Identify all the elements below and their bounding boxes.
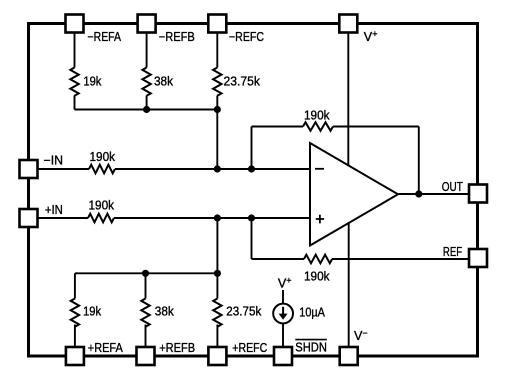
svg-text:+REFB: +REFB (159, 341, 195, 355)
svg-text:19k: 19k (83, 75, 102, 89)
resistor 190k (feedback) (303, 122, 333, 131)
wire: 19k bottom resistor top lead from bottom rail (74, 273, 76, 298)
wire: REF line right segment to REF pad (332, 258, 470, 260)
node: bottom rail / 38k junction (142, 270, 149, 277)
wire: current source to SHDN pad (282, 290, 284, 355)
svg-text:+REFA: +REFA (88, 341, 124, 355)
pad REF (469, 249, 487, 267)
pad V- (340, 347, 358, 365)
node: +IN line / bottom rail junction (214, 214, 221, 221)
svg-text:−REFB: −REFB (159, 30, 195, 44)
resistor 190k (-IN input) (89, 165, 115, 174)
current source 10uA (273, 304, 293, 324)
resistor 19k (bottom network) (71, 299, 79, 327)
resistor 38k (bottom network) (141, 299, 149, 327)
svg-text:OUT: OUT (442, 180, 463, 194)
svg-text:−IN: −IN (44, 154, 64, 168)
svg-text:19k: 19k (83, 305, 102, 319)
wire: -REFC pad stub down (216, 25, 218, 68)
node: top rail / 23.75k junction (214, 106, 221, 113)
wire: op-amp output to OUT pad (398, 193, 470, 195)
wire: feedback node up from -IN line (251, 127, 253, 170)
svg-text:190k: 190k (90, 150, 116, 164)
resistor 23.75k (bottom network) (213, 299, 221, 327)
node: top rail / 38k junction (143, 106, 150, 113)
resistor 19k (top network) (70, 68, 78, 96)
wire: -IN input line left segment (30, 168, 89, 170)
wire: +IN input line left segment (30, 217, 88, 219)
svg-text:+REFC: +REFC (232, 341, 267, 355)
wire: 23.75k bottom resistor top lead from bottom rail (216, 273, 218, 298)
wire: bottom reference rail (75, 272, 218, 274)
svg-text:190k: 190k (304, 270, 330, 284)
wire: REF line left segment (252, 258, 305, 260)
pad -REFC (208, 15, 226, 33)
pad -REFA (66, 15, 84, 33)
pad +REFB (137, 347, 155, 365)
wire: -IN input line right segment to op-amp (115, 168, 310, 170)
outer border frame wire (29, 24, 478, 357)
wire: 38k top resistor bottom lead to top rail (146, 96, 148, 110)
node: -IN line / feedback junction (248, 165, 255, 172)
pad V+ (339, 15, 357, 33)
wire: +IN input line right segment to op-amp (114, 217, 310, 219)
svg-text:23.75k: 23.75k (224, 75, 261, 89)
resistor 190k (REF) (304, 255, 332, 264)
pad OUT (469, 185, 487, 203)
wire: -REFB pad stub down (146, 25, 148, 68)
resistor 190k (+IN input) (88, 214, 114, 223)
wire: 23.75k top resistor bottom lead to top rail (216, 96, 218, 110)
svg-text:38k: 38k (154, 75, 174, 89)
wire: +IN line down to bottom rail (216, 218, 218, 273)
svg-text:190k: 190k (304, 109, 330, 123)
svg-text:38k: 38k (155, 305, 175, 319)
pad SHDN (274, 347, 292, 365)
node: +IN line / REF junction (248, 214, 255, 221)
wire: V+ supply line down to op-amp (347, 25, 349, 166)
resistor 23.75k (top network) (213, 68, 221, 96)
node: output junction (415, 190, 422, 197)
wire: top rail down to -IN wire (216, 110, 218, 170)
svg-text:−REFC: −REFC (229, 30, 264, 44)
op-amp U1 (310, 143, 398, 246)
pad -IN (20, 160, 38, 178)
wire: feedback top right segment (333, 126, 419, 128)
node: bottom rail / 23.75k junction (214, 270, 221, 277)
wire: 38k bottom resistor top lead from bottom rail (145, 273, 147, 298)
svg-text:SHDN: SHDN (295, 341, 327, 355)
svg-text:+IN: +IN (45, 203, 63, 217)
wire: 19k top resistor bottom lead to top rail (74, 96, 76, 110)
wire: top reference rail (75, 109, 218, 111)
pad -REFB (138, 15, 156, 33)
wire: +REFB pad stub up (145, 325, 147, 356)
wire: +REFA pad stub up (74, 325, 76, 356)
wire: feedback down to output node (418, 127, 420, 195)
svg-text:190k: 190k (89, 199, 115, 213)
svg-text:23.75k: 23.75k (226, 305, 262, 319)
wire: -REFA pad stub down (74, 25, 76, 68)
svg-text:10µA: 10µA (299, 306, 325, 320)
pad +REFA (66, 347, 84, 365)
wire: V- supply line up to op-amp (348, 223, 350, 356)
wire: +REFC pad stub up (216, 325, 218, 356)
pad +REFC (208, 347, 226, 365)
wire: feedback top left segment (252, 126, 304, 128)
resistor 38k (top network) (142, 68, 150, 96)
pad +IN (20, 209, 38, 227)
node: -IN line / top rail junction (214, 165, 221, 172)
svg-text:REF: REF (443, 245, 462, 259)
svg-text:−REFA: −REFA (88, 30, 122, 44)
wire: REF node down from +IN line (251, 218, 253, 259)
